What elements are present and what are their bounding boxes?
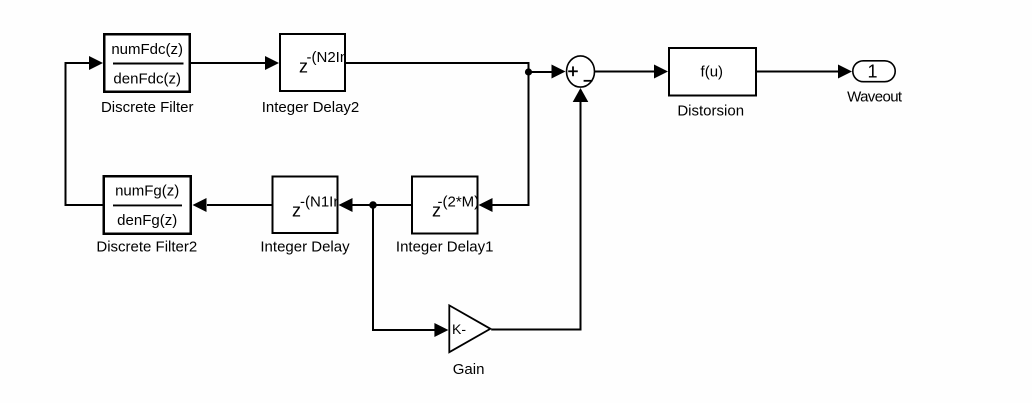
svg-text:1: 1 [867,62,877,82]
svg-text:Integer Delay2: Integer Delay2 [262,99,360,116]
block: Integer Delay2 [280,34,345,91]
port: Waveout outport 1 [853,61,895,82]
wire: Gain output right and up to Sum minus input [491,102,580,330]
value z^-(N2In of Integer Delay2 [299,49,379,76]
value 1 in Waveout [867,62,877,82]
svg-text:Distorsion: Distorsion [677,102,744,119]
svg-text:Discrete Filter2: Discrete Filter2 [96,239,197,256]
junction node at gain branch [369,201,377,209]
label Integer Delay2 [262,99,360,116]
svg-text:denFg(z): denFg(z) [117,212,177,229]
fraction line of Discrete Filter [113,63,184,65]
arrowhead into Distortion [654,65,668,79]
wire: gain branch down and right to Gain [373,205,435,330]
value numFg(z) numerator [115,183,179,200]
arrowhead into Waveout [838,65,852,79]
value denFg(z) denominator [117,212,177,229]
value z^-(N1In of Integer Delay [292,194,373,221]
svg-text:Gain: Gain [453,361,485,378]
junction node at sum branch [525,68,532,75]
arrowhead into Integer Delay2 [265,56,279,70]
wire: left feedback loop (Discrete Filter2 output up to Discrete Filter input) [66,63,104,205]
value K- of Gain [452,321,466,337]
svg-text:numFg(z): numFg(z) [115,183,179,200]
value f(u) [701,63,724,80]
label Waveout [847,88,903,105]
wire: Discrete Filter to Integer Delay2 [191,62,266,64]
svg-text:numFdc(z): numFdc(z) [111,41,183,58]
arrowhead into Discrete Filter input [89,56,103,70]
sign minus of Sum [584,80,593,82]
svg-text:denFdc(z): denFdc(z) [113,71,181,88]
value denFdc(z) denominator [113,71,181,88]
svg-text:Integer Delay: Integer Delay [260,239,350,256]
block: Discrete Filter2 [104,176,191,234]
block: Discrete Filter [104,34,190,92]
wire: Distortion output to Waveout [757,71,839,73]
label Gain [453,361,485,378]
value numFdc(z) numerator [111,41,183,58]
label Integer Delay1 [396,239,494,256]
fraction line of Discrete Filter2 [113,204,182,206]
svg-text:Waveout: Waveout [847,88,903,105]
label Distorsion [677,102,744,119]
wire: Integer Delay to Discrete Filter2 [207,204,272,206]
svg-text:Integer Delay1: Integer Delay1 [396,239,494,256]
label Discrete Filter [101,99,194,116]
svg-text:K-: K- [452,321,466,337]
svg-text:-(2*M): -(2*M) [438,194,480,211]
wire: Integer Delay2 output right, down, left to Integer Delay1 [346,63,529,205]
block: Integer Delay1 [412,177,478,234]
svg-text:f(u): f(u) [701,63,724,80]
label Discrete Filter2 [96,239,197,256]
wire: branch to Sum block [529,71,553,73]
wire: Integer Delay1 to Integer Delay [352,204,411,206]
block: Sum [567,56,595,87]
svg-text:Discrete Filter: Discrete Filter [101,99,194,116]
arrowhead up into Sum minus input [573,88,589,102]
arrowhead into Integer Delay right side [339,198,353,212]
block: Integer Delay [273,177,338,234]
arrowhead into Integer Delay1 right side [479,198,493,212]
sign plus of Sum [568,66,578,76]
block: Distortion f(u) [669,48,756,96]
label Integer Delay [260,239,350,256]
value z^-(2*M of Integer Delay1 [432,194,479,221]
arrowhead into Sum plus input [552,65,566,79]
wire: Sum output to Distortion [595,71,655,73]
block: Gain triangle [449,305,490,352]
arrowhead into Discrete Filter2 right side [193,198,207,212]
arrowhead into Gain [434,323,448,337]
